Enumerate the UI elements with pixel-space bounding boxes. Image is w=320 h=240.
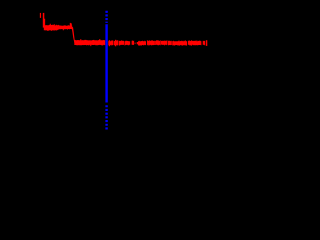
red curve: lower plateau clustered points right of line xyxy=(108,40,113,45)
red curve: initial vertical drop xyxy=(43,13,45,28)
red curve: small dash in gap xyxy=(137,42,139,44)
blue vertical line: top dotted part xyxy=(105,11,107,23)
red curve: left error-bar tick xyxy=(39,13,41,18)
red curve: lower plateau dense band xyxy=(74,39,105,46)
blue vertical line: bottom dotted part xyxy=(105,105,107,130)
red curve: tall error bar at x115.6 xyxy=(115,40,117,47)
red curve: tall error bar after line xyxy=(108,40,110,46)
red curve: final tall point xyxy=(206,40,208,46)
red curve: upper plateau band xyxy=(44,23,72,31)
red curve: second error bar at band start xyxy=(44,19,46,27)
blue vertical line: solid middle part xyxy=(105,24,107,102)
red curve: step down segment xyxy=(71,26,76,43)
red curve: faint small point in gap xyxy=(135,43,136,45)
